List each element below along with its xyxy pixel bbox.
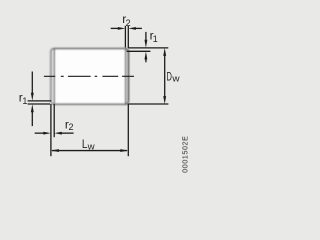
svg-text:w: w	[87, 142, 96, 152]
svg-text:1: 1	[153, 34, 158, 44]
svg-text:0001502E: 0001502E	[180, 136, 189, 173]
svg-text:1: 1	[22, 96, 27, 106]
svg-text:2: 2	[126, 18, 131, 28]
svg-text:D: D	[167, 69, 173, 83]
svg-text:2: 2	[69, 122, 74, 132]
svg-text:w: w	[171, 73, 180, 83]
